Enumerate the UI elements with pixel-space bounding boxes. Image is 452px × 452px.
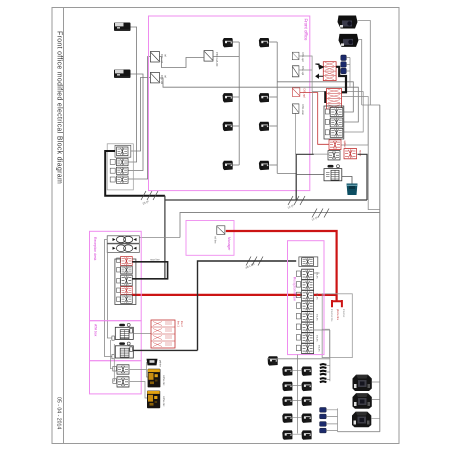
phone T5 — [259, 38, 269, 47]
wire S7 y212.5 — [180, 213, 380, 238]
phone T16 — [282, 414, 292, 423]
svg-text:ATA box: ATA box — [94, 324, 98, 337]
reception block red b4 — [121, 287, 133, 295]
thick black wire RT1 to RT2 — [325, 67, 346, 103]
wire switch row to right — [314, 273, 330, 330]
phone grid bus — [296, 355, 298, 434]
small block S5 — [117, 365, 129, 374]
arrow into RT1 top — [315, 64, 323, 69]
hash on S4 — [288, 196, 305, 205]
manager pink box — [186, 221, 234, 256]
POS register D3 — [352, 412, 371, 428]
hash on trunk near front office — [246, 257, 263, 266]
phone T8 — [259, 161, 269, 170]
wire navy modules to bus — [346, 58, 350, 87]
phone T7 — [259, 122, 269, 131]
switch stubs left — [296, 271, 300, 277]
arrow into RT1 bottom — [316, 75, 323, 78]
jack pair J1 — [320, 364, 327, 368]
wire B to long line L2 — [159, 78, 239, 87]
svg-text:line 1: line 1 — [177, 321, 180, 327]
AP navy module 1 — [341, 55, 347, 61]
handset pair row1 — [107, 236, 139, 243]
wire L3 to staircase — [312, 92, 363, 132]
phone T15 — [302, 397, 312, 406]
phone T3 — [223, 122, 233, 131]
operator panel top block — [117, 147, 128, 156]
thick red wire manager to internet fork — [226, 231, 337, 301]
stub row2 — [325, 119, 329, 124]
navy adapter A4 — [320, 428, 327, 433]
hash cable marks on thick wire — [141, 191, 158, 200]
svg-text:phone line: phone line — [336, 309, 339, 321]
G2 inner box — [322, 329, 329, 357]
wire BB2 left jog — [312, 92, 329, 155]
svg-text:48LAN: 48LAN — [316, 293, 319, 300]
svg-text:DSL wan: DSL wan — [301, 105, 305, 116]
camera CAM2 — [339, 34, 359, 47]
coffee icon small black — [147, 359, 158, 366]
relay box R2 — [292, 66, 299, 77]
pink box reception desk — [90, 231, 142, 320]
jack pair J2 — [320, 371, 327, 375]
phone T13 — [302, 382, 312, 391]
operator panel top block box — [115, 145, 131, 157]
svg-text:Internet: Internet — [342, 309, 345, 317]
red terminal RT2 — [327, 89, 342, 110]
wires grid phones to bus — [293, 370, 302, 434]
phone T14 — [282, 397, 292, 406]
wire red from R3 down — [300, 93, 329, 145]
operator panel stub row1 — [110, 159, 115, 164]
relay box R3 red — [292, 88, 300, 97]
wire handsets down to ATA1 — [105, 240, 112, 357]
wire L1 bus2 to right staircase — [277, 82, 353, 112]
svg-text:Reception desk: Reception desk — [93, 237, 97, 261]
hash on S7 — [312, 209, 329, 218]
svg-text:router: router — [359, 150, 362, 156]
wire A zigzag to C — [159, 57, 204, 68]
wire T2 to bus1 — [233, 96, 239, 98]
wire T3 to bus1 — [233, 125, 239, 127]
svg-text:Reception IP Sw: Reception IP Sw — [293, 277, 297, 301]
svg-text:DSL spl: DSL spl — [303, 89, 307, 98]
red block RB1 — [329, 140, 341, 150]
AP navy module 2 — [341, 62, 347, 67]
stub row1 — [325, 109, 329, 114]
wire relay A down to panel row3 — [128, 57, 150, 180]
ups unit box — [324, 165, 342, 181]
coffee machine 1 — [148, 369, 161, 388]
jack pair J3 — [320, 378, 327, 382]
wire L4 RT2 to staircase — [341, 97, 368, 146]
POS register D2 — [353, 393, 372, 409]
reception block red b1 — [121, 257, 133, 266]
Z wire ata to switch — [198, 261, 297, 350]
phone T18 — [282, 430, 292, 439]
svg-text:Internet line: Internet line — [330, 309, 333, 322]
operator panel stub row2 — [110, 168, 115, 173]
red block RB2 — [344, 149, 357, 159]
wire ATA1 right to red block — [133, 333, 151, 335]
pink box ATA — [90, 321, 142, 361]
svg-text:DSL spl: DSL spl — [301, 66, 305, 75]
reception stack box — [115, 259, 136, 305]
svg-text:DSL spl: DSL spl — [301, 53, 305, 62]
jack bus vertical — [327, 330, 330, 381]
wire handsets down to ATA2 — [107, 248, 112, 338]
wire R1 R2 join to vertical — [299, 56, 312, 92]
red distribution block left — [151, 320, 175, 348]
switch block row3 — [330, 128, 343, 137]
switch block row1 — [330, 108, 343, 117]
relay box R1 — [292, 52, 299, 60]
G2 box internet — [322, 294, 352, 358]
phone T19 — [302, 430, 312, 439]
switch stack blocks — [302, 269, 314, 279]
lone phone T9 — [268, 356, 278, 365]
relay box R4 — [292, 104, 299, 113]
wire T8 to bus2 — [269, 164, 277, 166]
stub row3 — [325, 130, 329, 135]
svg-text:PBX HA-80: PBX HA-80 — [215, 52, 219, 67]
relay box B — [150, 72, 159, 83]
switch block row2 — [330, 118, 343, 127]
wire loop stack right — [132, 262, 167, 279]
G3 side box — [362, 105, 380, 210]
phone T2 — [223, 93, 233, 102]
bottom collector wire — [338, 431, 380, 433]
red terminal RT1 — [323, 62, 336, 81]
pink box Front office — [149, 16, 310, 191]
wire T5 to bus2 — [269, 41, 277, 43]
reception block b5 — [121, 295, 133, 303]
phone T17 — [302, 414, 312, 423]
svg-text:Manager: Manager — [227, 237, 231, 251]
wire ups left — [296, 174, 324, 176]
wire ups to teal device — [342, 177, 352, 184]
wire thick from operator panel down — [105, 151, 165, 196]
reception block b3 — [121, 275, 133, 286]
navy adapters bus — [326, 408, 337, 431]
handset pair row2 — [107, 244, 139, 253]
wire T6 to bus2 — [269, 96, 277, 98]
switch stack box — [324, 106, 344, 139]
switch top port box — [299, 257, 318, 267]
long right vertical wire — [379, 105, 381, 432]
svg-text:Front office modified electric: Front office modified electrical Block d… — [56, 31, 63, 184]
navy adapter A1 — [320, 408, 327, 413]
relay box A — [150, 52, 159, 63]
phone bus1 vertical — [238, 42, 240, 165]
wire printer PR1 to panel row1 — [128, 27, 137, 162]
switch top block — [302, 258, 314, 266]
navy adapter A2 — [320, 414, 327, 419]
reception block b2 — [121, 266, 133, 274]
phone T1 — [223, 38, 233, 47]
svg-text:tel line: tel line — [214, 237, 217, 245]
operator panel outer box — [107, 144, 133, 190]
operator panel block row1 — [116, 158, 128, 165]
svg-text:coffee mc: coffee mc — [162, 375, 165, 386]
teal card device — [347, 184, 358, 196]
printer PR1 — [114, 23, 131, 32]
long thick red wire reception to fork — [132, 294, 336, 296]
phone bus2 vertical — [276, 42, 278, 173]
svg-text:tel: tel — [164, 54, 168, 57]
wire oval feeder — [139, 237, 180, 239]
wire S4 y200 — [165, 196, 367, 279]
wire L2 bus1 to right staircase — [239, 87, 358, 122]
camera CAM1 — [338, 16, 358, 29]
operator panel stub row3 — [110, 177, 115, 182]
POS register D1 — [353, 375, 372, 391]
black block BB2 — [328, 151, 340, 160]
wire S5 to devices — [130, 362, 148, 377]
page frame border — [52, 8, 399, 444]
operator panel block row3 — [116, 176, 128, 183]
phone T11 — [302, 367, 312, 376]
wire CAM1 right down — [358, 21, 371, 106]
ATA unit 2 — [112, 342, 133, 359]
wire T1 to bus1 — [233, 41, 239, 43]
phone T12 — [282, 382, 292, 391]
phone T10 — [282, 367, 292, 376]
pink box lower — [90, 361, 142, 394]
svg-text:line 2: line 2 — [180, 321, 183, 327]
ATA unit 1 — [112, 323, 133, 340]
wire ATA2 right to Z wire — [133, 349, 197, 351]
svg-text:max line: max line — [150, 258, 160, 262]
reception stubs — [117, 258, 121, 263]
svg-text:coffee mc: coffee mc — [162, 396, 165, 407]
wire relay B down to panel top block — [131, 78, 150, 152]
pink box reception IP switch — [288, 241, 325, 355]
wire printer PR2 to panel row2 — [128, 74, 143, 171]
svg-text:05 - 04 - 2014: 05 - 04 - 2014 — [56, 397, 62, 429]
wire T7 to bus2 — [269, 125, 277, 127]
wire C to phone bus1 — [213, 56, 239, 58]
phone T4 — [223, 161, 233, 170]
manager relay box — [217, 226, 225, 235]
small block S6 — [117, 377, 129, 387]
wire S6 to coffee2 — [130, 382, 148, 399]
printer PR2 — [114, 70, 131, 79]
svg-text:48LAN: 48LAN — [316, 335, 319, 342]
phone T6 — [259, 93, 269, 102]
wire CAM2 right down — [359, 40, 362, 106]
svg-text:splitter: splitter — [343, 141, 346, 148]
red fork bar — [332, 300, 342, 307]
navy adapter A3 — [320, 422, 327, 427]
wire R4 down to unit box — [295, 114, 297, 155]
relay box C PBX — [204, 51, 213, 62]
wires feeding small blocks — [110, 340, 114, 381]
svg-text:tel: tel — [164, 75, 168, 78]
phone feeder line — [267, 358, 330, 360]
operator panel block row2 — [116, 167, 128, 174]
wire T4 to bus1 — [233, 164, 239, 166]
wires POS to right vertical — [371, 382, 380, 419]
unit box B1 outline — [296, 154, 367, 200]
wire bus2 bottom to LAN trunk — [277, 173, 296, 200]
title strip divider — [63, 8, 65, 444]
AP navy module 3 — [341, 68, 347, 74]
svg-text:48LAN: 48LAN — [316, 314, 319, 321]
coffee machine 2 — [147, 391, 160, 409]
svg-text:printer: printer — [159, 360, 162, 367]
svg-text:Front office: Front office — [304, 19, 309, 41]
svg-text:DSL spl: DSL spl — [160, 54, 164, 63]
svg-text:48LAN: 48LAN — [318, 345, 321, 352]
